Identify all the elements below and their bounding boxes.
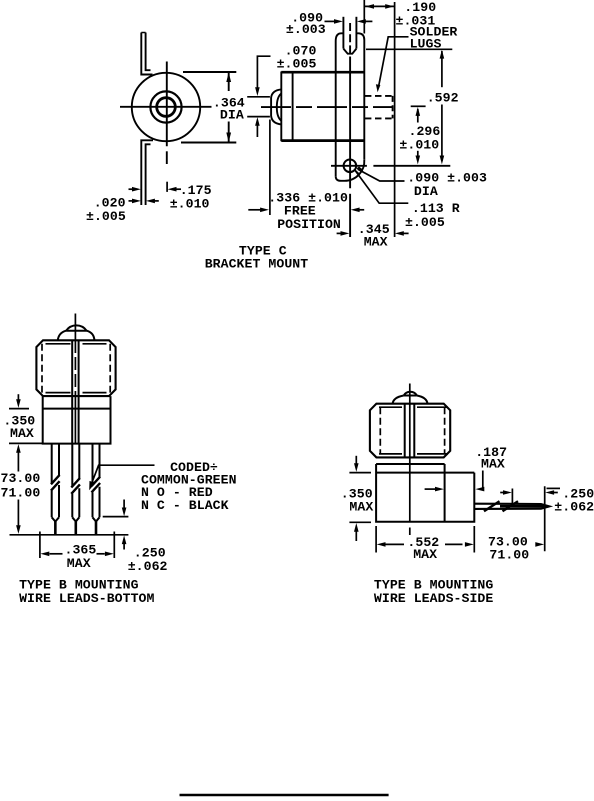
svg-text:LUGS: LUGS [410,36,442,51]
arrowheads: dim .190 [365,4,374,9]
leader from coded note to lead [91,465,155,485]
side view: body bottom edge [281,139,364,142]
solder lugs leader [379,37,409,87]
dim .020 arrows at bracket strip [129,200,134,202]
B-bottom: hex chamfer inner line bottom [46,392,107,394]
arrowheads: dim .020 [132,199,141,204]
dim .250 arrow tails [500,492,503,494]
side view: plunger outer profile [271,89,281,124]
dim .345 arrow tails [337,232,342,234]
dim .070 lower arrow tail [256,125,258,138]
bracket edge-on: upper strip left line [141,33,152,75]
dim .336 arrow tails [248,209,260,211]
B-bottom: vertical centerline [74,314,76,341]
svg-text:±.010: ±.010 [399,138,439,153]
dim .350 right: extensions + shafts [349,472,371,474]
B-bottom: base block [43,396,111,444]
arrowheads: dim .345 [341,231,350,236]
B-side: ball plunger top arc [404,392,417,396]
arrowheads: dim .070 [255,87,260,96]
svg-text:DIA: DIA [414,184,438,199]
dim .070 leader from label [257,56,270,88]
B-side: ball chord line [404,395,417,397]
dim .175 extension at centerline [166,182,168,192]
dim .250 left: extensions [103,516,129,518]
svg-text:WIRE LEADS-SIDE: WIRE LEADS-SIDE [374,591,493,606]
svg-text:±.062: ±.062 [128,559,168,574]
svg-text:±.003: ±.003 [286,22,326,37]
dim 73.00/71.00 left shafts [17,500,19,526]
front view: bushing circle [150,91,181,122]
svg-text:MAX: MAX [349,500,373,515]
svg-text:WIRE LEADS-BOTTOM: WIRE LEADS-BOTTOM [19,591,154,606]
svg-text:±.010: ±.010 [170,196,210,211]
B-bottom: center facet lines [71,340,73,443]
side view: bracket plate outline [336,33,344,176]
B-bottom: lead 2 [72,444,79,518]
front view: vertical centerline [166,62,168,147]
bracket edge-on: upper strip right line [146,33,151,71]
arrowheads: dim .336 [260,208,269,213]
arrowhead: leader .113 R [354,169,360,178]
arrowheads: dim .296 [416,107,421,116]
dim .365 extensions [39,532,41,559]
B-side: plunger seat arcs [393,396,404,404]
arrowheads: dim .250 right [503,490,512,495]
leader .090 DIA to hole [358,169,405,181]
arrowhead: leader .090 DIA [356,167,364,173]
B-bottom: hex chamfer inner line top [46,343,107,345]
bracket edge-on: lower strip left line [141,140,153,205]
dim .190/.345 right extension line [394,2,396,237]
B-side: hex facet hidden lines [379,407,381,454]
svg-text:.592: .592 [427,91,459,106]
bracket slot right edge + extension [355,17,357,49]
dim .592 top extension line [366,48,452,50]
slot/hole centerline dashed top [349,23,351,57]
B-bottom: base internal line [43,408,111,410]
B-side: wire break slashes [484,501,518,511]
dim .070 extension lines at plunger [247,96,270,98]
hidden solder lug outline (dashed) [365,95,393,97]
side view: body front face [280,72,282,142]
B-bottom: plunger seat arcs [58,331,66,341]
bracket bottom right corner radius .113 [336,160,365,181]
dim .175 arrow tails [129,188,134,190]
side view: plunger inner arc [277,94,282,121]
dim .592 dimension line [441,51,443,87]
dim .552/73.00 extensions [375,526,377,553]
front view: plunger circle [157,98,176,117]
dim .364 top extension line [183,71,236,73]
arrowheads: dim .364 [226,72,231,82]
svg-text:MAX: MAX [10,426,34,441]
bracket slot chamfered bottom [343,49,356,54]
arrowheads: dim .365 [40,552,49,557]
arrowhead: solder lugs leader [376,84,381,92]
B-side: center facet lines [404,404,406,458]
bottom border line segment [180,794,389,797]
side view: body top edge [281,71,364,74]
side view: bushing shoulder line [292,72,294,141]
svg-text:MAX: MAX [364,234,388,249]
svg-text:MAX: MAX [67,556,91,571]
dim .364 vertical dimension line [228,73,230,91]
hole horizontal centerline/extension [331,165,367,167]
leader .113 R to corner [355,170,408,203]
B-side: wire bundle [474,504,549,509]
B-bottom: lead 1 [52,444,59,518]
dim .365 dimension line [50,553,63,555]
arrowheads: dim .250 left [122,508,127,517]
svg-text:DIA: DIA [220,108,244,123]
dim .296 top bar at centerline [411,105,426,107]
side view horizontal centerline (dashed) [261,106,393,108]
dim line .552 + 73.00 [385,543,404,545]
svg-text:N C - BLACK: N C - BLACK [141,498,229,513]
arrowheads: dim .350 left [16,399,21,408]
dim .296 arrow shafts [417,109,419,123]
front view: horizontal centerline [120,106,212,108]
svg-text:±.005: ±.005 [405,215,445,230]
B-bottom: ball plunger top arc [66,325,87,330]
dim .190 dimension line [365,5,394,7]
dim .350 left: extension + arrows [9,408,29,410]
svg-text:BRACKET MOUNT: BRACKET MOUNT [205,257,309,272]
svg-text:MAX: MAX [413,547,437,562]
front view: switch body outer circle [132,73,200,141]
svg-text:±.005: ±.005 [277,57,317,72]
B-bottom: hex facet hidden lines [41,344,43,393]
arrowheads: dim .552 / 73.00 [377,542,386,547]
arrowheads: dim .350 right [354,463,359,472]
B-bottom: ball chord line [66,330,87,332]
arrowheads: dim .592 [440,50,445,59]
svg-text:71.00: 71.00 [1,485,41,500]
B-bottom: lead 3 [93,444,100,518]
svg-text:71.00: 71.00 [489,547,529,562]
svg-text:.113 R: .113 R [412,201,460,216]
B-side: hex bushing outline [370,404,450,458]
svg-text:73.00: 73.00 [1,471,41,486]
mounting hole [344,160,357,173]
arrowheads: dim .187 [435,487,444,492]
dim .190 left extension (bracket edge up) [363,0,365,34]
svg-text:POSITION: POSITION [277,217,341,232]
arrowhead: coded leader [89,481,95,490]
dim .250 right extension [511,489,513,505]
B-side: connector divider [444,473,446,522]
B-bottom: hex bushing outline [36,340,115,396]
svg-text:MAX: MAX [481,457,505,472]
B-side: base internal line / connector top [376,472,474,474]
arrowhead: dim 73/71 bottom [16,525,21,534]
svg-text:±.062: ±.062 [554,500,594,515]
hole center extension line down [349,194,351,237]
dim .336 plunger tip extension line [269,120,271,216]
slot/hole centerline through body [349,57,351,189]
svg-text:±.005: ±.005 [86,209,126,224]
arrowheads: dim .090 [334,19,343,24]
bracket edge-on: upper strip top cap [141,32,145,34]
dim .364 bottom extension line [181,142,236,144]
B-side: hex chamfer inner lines [379,406,448,408]
dim .090 arrow tails [325,20,335,22]
bracket slot left edge + extension [342,17,344,49]
dim .250 label tail line [547,487,561,489]
dim .187 leader + arrows [481,471,484,490]
bracket edge-on: lower strip right line [146,144,151,205]
B-side: vertical centerline [409,384,411,522]
B-side: base block [376,464,474,522]
arrowheads: dim .175 [132,187,141,192]
front view: vertical centerline dash below [166,151,168,164]
